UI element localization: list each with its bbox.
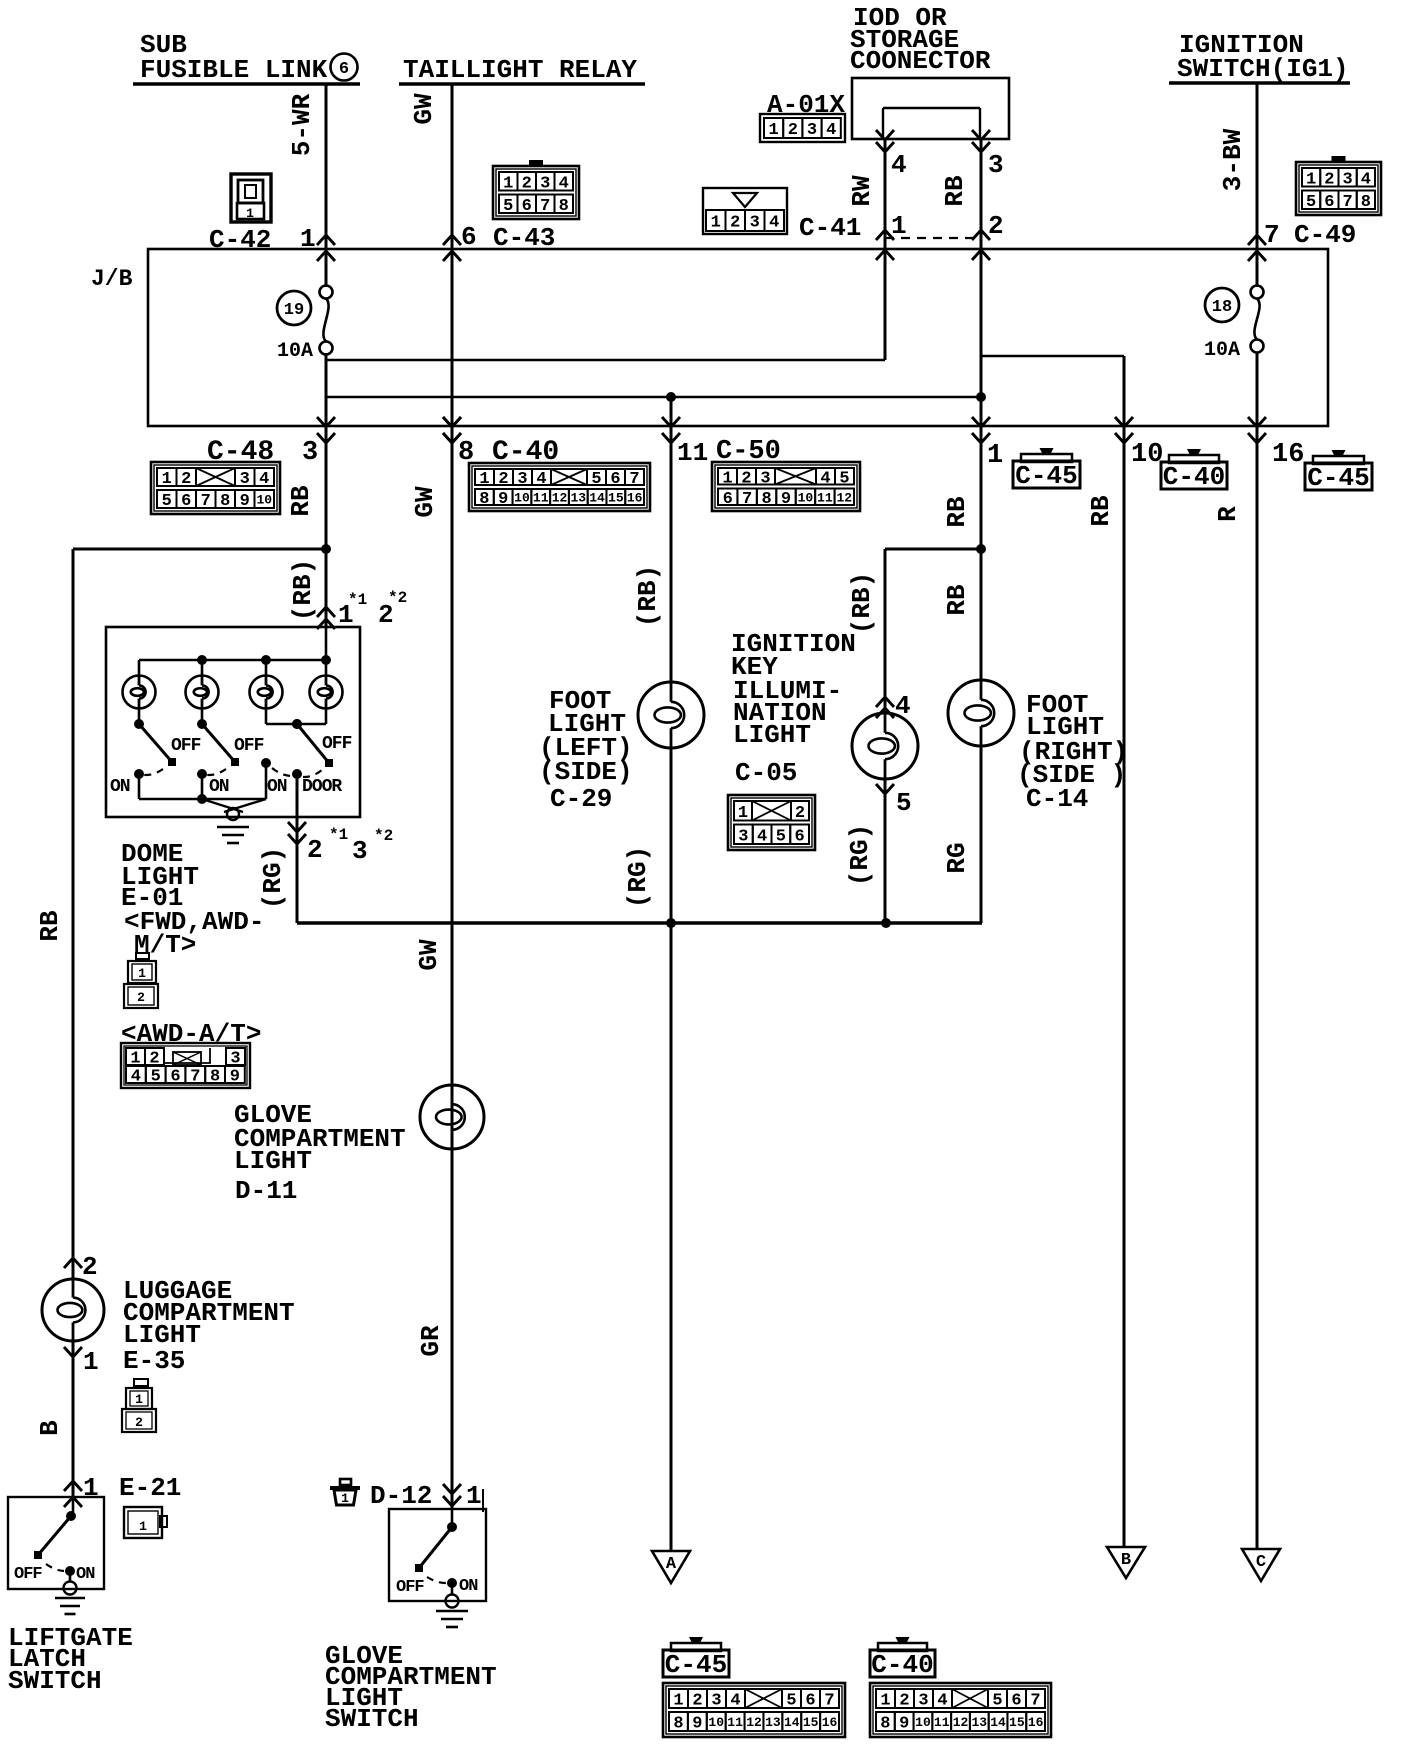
svg-text:3-BW: 3-BW xyxy=(1218,128,1248,191)
svg-text:5: 5 xyxy=(992,1692,1002,1711)
wire inside J/B: exit 11 drop xyxy=(670,397,673,426)
dome internal top bus xyxy=(139,627,331,676)
svg-text:2: 2 xyxy=(795,804,805,823)
svg-text:OFF: OFF xyxy=(171,736,201,756)
svg-text:1: 1 xyxy=(135,1392,143,1407)
svg-text:ON: ON xyxy=(76,1565,95,1584)
wire RW from IOD connector pin 4 to J/B pin 1 xyxy=(876,130,894,360)
text FOOT LIGHT (RIGHT SIDE) C-14 xyxy=(1017,690,1128,814)
svg-text:8: 8 xyxy=(1361,193,1371,212)
svg-text:2: 2 xyxy=(181,470,191,489)
svg-text:5: 5 xyxy=(162,492,172,511)
svg-text:2: 2 xyxy=(741,469,751,488)
pin 4 arrow ignition key bulb xyxy=(876,691,911,721)
svg-text:10: 10 xyxy=(915,1715,931,1730)
svg-text:(SIDE): (SIDE) xyxy=(539,757,633,787)
svg-text:4: 4 xyxy=(826,121,836,140)
svg-text:C-48: C-48 xyxy=(207,437,274,468)
svg-text:18: 18 xyxy=(1212,298,1232,317)
badge C-45 bottom xyxy=(663,1637,729,1680)
text FOOT LIGHT (LEFT SIDE) C-29 xyxy=(539,686,633,814)
svg-text:12: 12 xyxy=(746,1715,762,1730)
svg-text:12: 12 xyxy=(552,491,568,506)
liftgate latch switch box xyxy=(8,1497,104,1589)
svg-text:5: 5 xyxy=(776,827,786,846)
svg-text:4: 4 xyxy=(891,150,907,180)
svg-text:2: 2 xyxy=(899,1692,909,1711)
wire exit 10 to connector B xyxy=(1123,426,1126,1547)
svg-text:4: 4 xyxy=(937,1692,947,1711)
svg-text:2: 2 xyxy=(137,990,145,1005)
svg-text:RB: RB xyxy=(942,584,972,616)
wire RB from IOD connector pin 3 to J/B pin 2 xyxy=(972,130,990,426)
svg-text:5: 5 xyxy=(786,1692,796,1711)
svg-text:4: 4 xyxy=(559,174,569,193)
svg-text:C-29: C-29 xyxy=(550,784,612,814)
svg-text:LIGHT: LIGHT xyxy=(234,1146,312,1176)
svg-text:4: 4 xyxy=(757,827,767,846)
pin 5 arrow ignition key bulb xyxy=(876,784,912,818)
svg-text:9: 9 xyxy=(230,1068,240,1087)
svg-text:7: 7 xyxy=(1030,1692,1040,1711)
svg-text:6: 6 xyxy=(461,222,477,252)
svg-text:E-21: E-21 xyxy=(119,1473,181,1503)
svg-text:13: 13 xyxy=(971,1715,987,1730)
svg-text:C-40: C-40 xyxy=(871,1650,933,1680)
svg-text:2: 2 xyxy=(730,214,740,233)
svg-text:*1: *1 xyxy=(329,826,348,844)
svg-text:C-45: C-45 xyxy=(1307,463,1369,493)
dome bulb 4 xyxy=(310,676,343,709)
svg-text:2: 2 xyxy=(498,470,508,489)
connector C-50 xyxy=(712,462,860,511)
junction to ignition key illumination xyxy=(885,544,986,714)
svg-text:8: 8 xyxy=(210,1068,220,1087)
text LIFTGATE LATCH SWITCH xyxy=(8,1623,133,1696)
J/B exit pin 1 xyxy=(972,417,990,443)
svg-text:12: 12 xyxy=(953,1715,969,1730)
wire inside J/B: fuse19 to exit 3 xyxy=(325,353,328,426)
dome bulb 1 xyxy=(123,676,156,709)
svg-text:4: 4 xyxy=(769,214,779,233)
bulb glove compartment light D-11 xyxy=(420,1085,484,1149)
svg-text:1: 1 xyxy=(711,214,721,233)
label IGNITION SWITCH(IG1) xyxy=(1169,30,1350,84)
svg-text:OFF: OFF xyxy=(234,736,264,756)
svg-text:6: 6 xyxy=(170,1068,180,1087)
svg-text:7: 7 xyxy=(629,470,639,489)
svg-text:10A: 10A xyxy=(1204,339,1240,362)
wire exit 1 down to foot light right xyxy=(980,426,983,681)
svg-text:5: 5 xyxy=(151,1068,161,1087)
svg-text:1: 1 xyxy=(138,966,146,981)
svg-text:3: 3 xyxy=(760,469,770,488)
svg-text:7: 7 xyxy=(190,1068,200,1087)
svg-text:8: 8 xyxy=(761,490,771,509)
svg-text:6: 6 xyxy=(339,60,349,79)
svg-text:6: 6 xyxy=(610,470,620,489)
connector C-42 xyxy=(231,174,271,222)
svg-text:A-01X: A-01X xyxy=(767,90,845,120)
svg-text:9: 9 xyxy=(781,490,791,509)
svg-text:3: 3 xyxy=(918,1692,928,1711)
svg-text:*1: *1 xyxy=(348,591,367,609)
glove switch xyxy=(396,1509,478,1608)
dome switch 1 xyxy=(110,719,201,799)
wire inside J/B: horizontal from fuse 19 to RW entry xyxy=(326,359,885,362)
svg-text:10: 10 xyxy=(256,493,272,508)
badge C-45 right xyxy=(1305,450,1372,493)
case icon D-12 xyxy=(330,1479,360,1506)
svg-text:9: 9 xyxy=(498,490,508,509)
svg-text:C-45: C-45 xyxy=(665,1650,727,1680)
svg-text:(RG): (RG) xyxy=(623,846,653,908)
connector C-48 xyxy=(151,462,280,514)
svg-text:16: 16 xyxy=(627,491,643,506)
badge C-45 xyxy=(1013,448,1080,491)
svg-text:1: 1 xyxy=(139,1519,147,1534)
svg-text:14: 14 xyxy=(589,491,605,506)
dome bottom bus to ground xyxy=(139,794,266,820)
svg-text:1: 1 xyxy=(987,441,1003,471)
dome switch 3 ON/DOOR xyxy=(261,719,352,799)
svg-text:SWITCH: SWITCH xyxy=(8,1666,102,1696)
label D-12 pin 1 xyxy=(370,1481,483,1512)
svg-text:2: 2 xyxy=(1324,170,1334,189)
wire inside J/B: bus to exits 11 and 1 xyxy=(326,392,986,402)
svg-text:4: 4 xyxy=(536,470,546,489)
svg-text:RB: RB xyxy=(35,910,65,942)
dome bulb lower wires xyxy=(139,708,326,729)
svg-text:7: 7 xyxy=(1343,193,1353,212)
dome pin labels 1*1 2*2 xyxy=(338,589,407,630)
svg-text:C-41: C-41 xyxy=(799,213,861,243)
svg-text:3: 3 xyxy=(750,214,760,233)
svg-text:9: 9 xyxy=(692,1715,702,1734)
connector C-49 xyxy=(1296,157,1381,215)
connector E-35 xyxy=(122,1379,156,1432)
svg-text:7: 7 xyxy=(201,492,211,511)
svg-text:GW: GW xyxy=(409,93,439,125)
connector C-40 bottom 16pin xyxy=(870,1683,1051,1737)
dome ground symbol xyxy=(217,826,249,829)
wire inside J/B: branch RB to exit 10 xyxy=(981,356,1124,426)
svg-text:RG: RG xyxy=(942,842,972,873)
J/B exit pin 10 xyxy=(1115,417,1133,443)
bulb ignition key illumination xyxy=(852,713,918,779)
connector C-40 top xyxy=(469,463,650,511)
wire foot light left to bus and connector A xyxy=(670,748,673,1551)
svg-text:RB: RB xyxy=(942,496,972,528)
bulb luggage compartment light E-35 xyxy=(42,1279,104,1341)
svg-text:5: 5 xyxy=(1306,193,1316,212)
svg-text:8: 8 xyxy=(220,492,230,511)
pin 2 arrow luggage light xyxy=(64,1252,98,1282)
svg-text:5: 5 xyxy=(591,470,601,489)
svg-text:GW: GW xyxy=(414,939,444,971)
connector C-41 xyxy=(703,188,787,234)
dome switch 2 xyxy=(197,719,264,799)
svg-text:10: 10 xyxy=(798,490,814,505)
node C triangle xyxy=(1242,1549,1280,1581)
svg-text:10: 10 xyxy=(1131,440,1163,470)
label IOD OR STORAGE COONECTOR xyxy=(850,3,991,76)
svg-text:1: 1 xyxy=(162,470,172,489)
svg-text:2: 2 xyxy=(788,121,798,140)
svg-text:C-05: C-05 xyxy=(735,758,797,788)
svg-text:11: 11 xyxy=(934,1715,950,1730)
glove switch ground xyxy=(436,1610,468,1613)
svg-text:1: 1 xyxy=(673,1692,683,1711)
svg-text:16: 16 xyxy=(1028,1715,1044,1730)
svg-text:16: 16 xyxy=(822,1715,838,1730)
dome light box xyxy=(106,627,360,817)
connector E-21 xyxy=(124,1507,167,1538)
svg-text:1: 1 xyxy=(83,1473,99,1503)
svg-text:5: 5 xyxy=(503,197,513,216)
svg-text:7: 7 xyxy=(540,197,550,216)
svg-text:ON: ON xyxy=(110,777,130,797)
svg-text:B: B xyxy=(1121,1551,1131,1570)
connector C-43 xyxy=(493,161,579,219)
wire inside J/B: fuse 18 to exit 16 xyxy=(1256,352,1259,426)
label SUB FUSIBLE LINK 6 xyxy=(133,30,360,85)
svg-text:5-WR: 5-WR xyxy=(287,93,317,156)
svg-text:6: 6 xyxy=(1011,1692,1021,1711)
svg-text:A: A xyxy=(666,1555,677,1574)
node B triangle xyxy=(1107,1547,1145,1578)
svg-text:6: 6 xyxy=(522,197,532,216)
svg-text:C: C xyxy=(1256,1553,1266,1572)
J/B exit pin 11 C-50 xyxy=(662,417,680,443)
svg-text:2: 2 xyxy=(307,835,323,865)
svg-text:1: 1 xyxy=(738,804,748,823)
svg-text:OFF: OFF xyxy=(322,734,352,754)
svg-text:8: 8 xyxy=(559,197,569,216)
svg-text:1: 1 xyxy=(880,1692,890,1711)
svg-text:3: 3 xyxy=(517,470,527,489)
pin 1 arrow liftgate switch xyxy=(64,1473,99,1507)
svg-text:LIGHT: LIGHT xyxy=(733,720,811,750)
svg-text:OFF: OFF xyxy=(396,1578,424,1597)
svg-text:3: 3 xyxy=(352,836,368,866)
svg-text:TAILLIGHT RELAY: TAILLIGHT RELAY xyxy=(403,55,637,85)
wire foot light right to bus xyxy=(980,746,983,923)
wire luggage light to liftgate switch xyxy=(72,1341,75,1497)
svg-text:GW: GW xyxy=(410,486,440,518)
svg-text:RB: RB xyxy=(286,485,316,517)
J/B exit pin 3 C-48 xyxy=(317,417,335,443)
svg-text:3: 3 xyxy=(302,438,318,468)
svg-text:ON: ON xyxy=(209,777,229,797)
svg-text:4: 4 xyxy=(259,470,269,489)
badge C-40 bottom xyxy=(870,1637,935,1680)
svg-text:1: 1 xyxy=(479,470,489,489)
svg-text:12: 12 xyxy=(836,490,852,505)
dome bulb 3 xyxy=(250,676,283,709)
svg-text:3: 3 xyxy=(738,827,748,846)
svg-text:(RG): (RG) xyxy=(258,847,288,909)
svg-text:3: 3 xyxy=(1343,170,1353,189)
svg-text:1: 1 xyxy=(768,121,778,140)
fuse 19 10A xyxy=(277,286,333,364)
svg-text:11: 11 xyxy=(727,1715,743,1730)
svg-text:OFF: OFF xyxy=(14,1565,42,1584)
connector A-01X xyxy=(760,114,845,142)
text IGNITION KEY ILLUMINATION LIGHT C-05 xyxy=(731,629,856,788)
svg-text:(RB): (RB) xyxy=(847,572,877,634)
svg-text:1: 1 xyxy=(466,1481,482,1511)
wire exit 11 down to foot light left xyxy=(670,426,673,683)
svg-text:1: 1 xyxy=(722,469,732,488)
svg-text:16: 16 xyxy=(1272,440,1304,470)
junction block J/B xyxy=(148,249,1328,426)
wire ignition key bulb to RG bus xyxy=(884,779,887,923)
svg-text:8: 8 xyxy=(880,1715,890,1734)
svg-text:10: 10 xyxy=(514,491,530,506)
svg-text:RB: RB xyxy=(940,175,970,207)
svg-text:4: 4 xyxy=(730,1692,740,1711)
svg-text:5: 5 xyxy=(896,788,912,818)
svg-text:4: 4 xyxy=(1361,170,1371,189)
svg-text:15: 15 xyxy=(1009,1715,1025,1730)
svg-text:(RB): (RB) xyxy=(633,565,663,627)
svg-text:7: 7 xyxy=(1264,220,1280,250)
svg-text:9: 9 xyxy=(240,492,250,511)
RG return bus xyxy=(297,918,982,928)
svg-text:C-14: C-14 xyxy=(1026,784,1088,814)
bulb foot light right C-14 xyxy=(948,680,1014,746)
svg-text:C-40: C-40 xyxy=(1163,462,1225,492)
wire dome DOOR contact to exit xyxy=(288,774,306,923)
svg-text:*2: *2 xyxy=(374,827,393,845)
svg-text:RB: RB xyxy=(1086,495,1116,527)
svg-text:R: R xyxy=(1213,506,1243,522)
svg-text:6: 6 xyxy=(1324,193,1334,212)
dashed wire between C-41 pins 1 and 2 xyxy=(885,237,981,239)
svg-text:B: B xyxy=(35,1420,65,1436)
liftgate switch xyxy=(14,1497,95,1595)
badge C-40 xyxy=(1161,449,1227,492)
svg-text:8: 8 xyxy=(673,1715,683,1734)
svg-text:<AWD-A/T>: <AWD-A/T> xyxy=(121,1019,261,1049)
svg-text:3: 3 xyxy=(807,121,817,140)
svg-text:5: 5 xyxy=(839,469,849,488)
svg-text:C-45: C-45 xyxy=(1015,461,1077,491)
svg-text:SWITCH(IG1): SWITCH(IG1) xyxy=(1177,54,1349,84)
svg-text:6: 6 xyxy=(805,1692,815,1711)
text GLOVE COMPARTMENT LIGHT SWITCH xyxy=(325,1641,497,1734)
glove compartment light switch box xyxy=(389,1509,486,1601)
text DOME LIGHT E-01 xyxy=(121,839,264,960)
svg-text:*2: *2 xyxy=(388,589,407,607)
svg-text:GR: GR xyxy=(416,1325,446,1357)
svg-text:E-35: E-35 xyxy=(123,1346,185,1376)
wire 3-BW from ignition switch to J/B pin 7 xyxy=(1248,83,1266,287)
svg-text:1: 1 xyxy=(891,211,907,241)
svg-text:11: 11 xyxy=(677,438,708,468)
svg-text:7: 7 xyxy=(742,490,752,509)
svg-text:1: 1 xyxy=(503,174,513,193)
connector AWD-A/T 9pin xyxy=(121,1043,250,1088)
svg-text:COONECTOR: COONECTOR xyxy=(850,46,991,76)
svg-text:ON: ON xyxy=(459,1577,478,1596)
svg-text:15: 15 xyxy=(803,1715,819,1730)
text LUGGAGE COMPARTMENT LIGHT E-35 xyxy=(123,1276,295,1376)
svg-text:4: 4 xyxy=(131,1068,141,1087)
svg-text:RW: RW xyxy=(847,175,877,207)
connector C-45 bottom 16pin xyxy=(663,1683,845,1737)
svg-text:1: 1 xyxy=(83,1347,99,1377)
svg-text:3: 3 xyxy=(240,470,250,489)
svg-text:6: 6 xyxy=(181,492,191,511)
svg-text:19: 19 xyxy=(284,301,304,320)
svg-text:11: 11 xyxy=(817,490,833,505)
svg-text:J/B: J/B xyxy=(91,266,133,292)
svg-text:10A: 10A xyxy=(277,340,313,363)
svg-text:14: 14 xyxy=(784,1715,800,1730)
dome exit labels 2*1 3*2 xyxy=(307,826,393,866)
svg-text:14: 14 xyxy=(990,1715,1006,1730)
svg-text:1: 1 xyxy=(341,1491,349,1506)
svg-text:DOOR: DOOR xyxy=(302,777,342,797)
J/B exit pin 16 xyxy=(1248,417,1266,443)
svg-text:7: 7 xyxy=(824,1692,834,1711)
wire RB exit3 down to dome light xyxy=(317,426,335,629)
svg-text:3: 3 xyxy=(711,1692,721,1711)
wire 5-WR from sub fusible link to J/B pin 1 xyxy=(317,84,335,287)
dome bulb 2 xyxy=(186,676,219,709)
svg-text:3: 3 xyxy=(540,174,550,193)
svg-text:6: 6 xyxy=(723,490,733,509)
svg-text:6: 6 xyxy=(795,827,805,846)
svg-text:2: 2 xyxy=(522,174,532,193)
liftgate switch ground xyxy=(55,1597,85,1600)
svg-text:9: 9 xyxy=(899,1715,909,1734)
svg-text:C-42: C-42 xyxy=(209,225,271,255)
svg-text:D-12: D-12 xyxy=(370,1481,432,1511)
svg-text:ON: ON xyxy=(267,777,287,797)
bulb foot light left C-29 xyxy=(638,682,704,748)
svg-text:2: 2 xyxy=(82,1252,98,1282)
svg-text:10: 10 xyxy=(708,1715,724,1730)
svg-text:8: 8 xyxy=(479,490,489,509)
svg-text:15: 15 xyxy=(608,491,624,506)
svg-text:(RG): (RG) xyxy=(845,824,875,886)
svg-text:13: 13 xyxy=(570,491,586,506)
fuse 18 10A xyxy=(1204,286,1264,363)
svg-text:M/T>: M/T> xyxy=(134,930,196,960)
svg-text:2: 2 xyxy=(135,1415,143,1430)
wire exit 16 to connector C xyxy=(1256,426,1259,1549)
svg-text:SWITCH: SWITCH xyxy=(325,1704,419,1734)
connector E-01 dome xyxy=(124,953,158,1008)
connector C-05 xyxy=(728,795,815,850)
wire GW from taillight relay through J/B xyxy=(443,84,461,1509)
svg-text:C-49: C-49 xyxy=(1294,220,1356,250)
svg-text:11: 11 xyxy=(533,491,549,506)
svg-text:1: 1 xyxy=(246,206,254,221)
pin 1 arrow luggage light xyxy=(64,1347,99,1377)
svg-text:13: 13 xyxy=(765,1715,781,1730)
svg-text:3: 3 xyxy=(988,150,1004,180)
J/B exit pin 8 C-40 xyxy=(443,417,461,443)
svg-text:1: 1 xyxy=(1306,170,1316,189)
svg-text:(RB): (RB) xyxy=(288,559,318,621)
node A triangle xyxy=(652,1551,690,1583)
svg-text:4: 4 xyxy=(820,469,830,488)
wire branch to luggage compartment light xyxy=(73,549,326,1280)
